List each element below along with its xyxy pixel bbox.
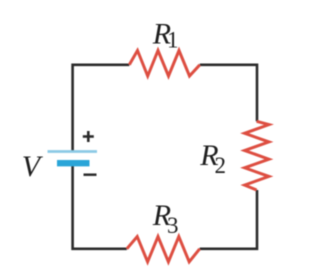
svg-text:2: 2 [215,153,227,178]
svg-text:1: 1 [167,28,179,53]
svg-text:3: 3 [167,213,179,238]
svg-text:V: V [22,150,44,183]
